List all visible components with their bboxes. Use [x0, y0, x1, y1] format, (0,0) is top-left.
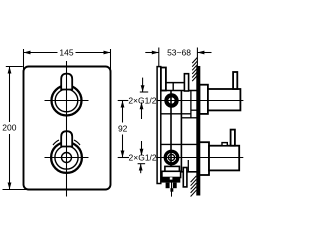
- dim 53-68 extension line left: [158, 48, 160, 67]
- dim 200 line upper segment: [9, 67, 11, 123]
- upper port ring: [164, 93, 178, 107]
- upper centerline: [156, 100, 243, 102]
- top knob stem: [61, 74, 72, 90]
- top knob horizontal centerline: [45, 100, 89, 102]
- dim 145 line left segment: [24, 52, 58, 54]
- lower port inner circle: [168, 154, 174, 160]
- lower tick arrow shaft: [140, 164, 142, 174]
- dim 145 extension line right: [110, 49, 112, 73]
- upper tick arrow shaft: [142, 78, 144, 92]
- second dim arrow down head: [140, 149, 144, 156]
- rear stub: [183, 168, 187, 187]
- svg-text:145: 145: [59, 48, 73, 58]
- second dim arrow up shaft: [141, 103, 143, 120]
- dim 200 extension line bottom: [3, 189, 27, 191]
- dim 200 extension line top: [6, 66, 23, 68]
- dim 145 arrow left: [24, 51, 31, 55]
- upper tick mark: [140, 91, 148, 93]
- bottom fitting nut right: [173, 183, 177, 189]
- dim 92 arrow down: [121, 151, 125, 158]
- lower tick mark: [138, 163, 146, 165]
- lower centerline: [156, 157, 243, 159]
- bottom knob rotation arc left: [53, 140, 59, 145]
- side body vertical line 4: [187, 160, 189, 172]
- upper pipe: [208, 89, 241, 110]
- dim 92 lower leader line: [118, 157, 129, 159]
- lower flange: [199, 142, 209, 175]
- dim 200 arrow bottom: [8, 183, 12, 190]
- lower bump: [222, 143, 227, 146]
- front plate: [24, 67, 111, 190]
- bottom fitting tip: [170, 188, 173, 192]
- side body horizontal line 1: [161, 113, 191, 115]
- bottom fitting nut left: [166, 183, 170, 189]
- side body horizontal line 4: [161, 143, 197, 145]
- dim 92 line upper segment: [122, 101, 124, 123]
- bottom fitting slab 1: [165, 166, 180, 171]
- stem 2: [184, 74, 188, 91]
- side body horizontal line 2: [181, 117, 196, 119]
- side body vertical line 2: [180, 91, 182, 172]
- side trim plate: [157, 67, 161, 184]
- upper label leader to port: [157, 100, 165, 102]
- dim 145 extension line left: [23, 49, 25, 73]
- dim 92 arrow up: [121, 101, 125, 108]
- svg-text:53~68: 53~68: [167, 47, 191, 57]
- wall hatching upper: [192, 58, 197, 64]
- second dim arrow up head: [140, 102, 144, 109]
- dim 200 line lower segment: [9, 134, 11, 190]
- upper section short vertical: [172, 83, 174, 91]
- dim 53-68 right arrow head: [197, 51, 204, 55]
- top knob inner ring: [55, 89, 78, 112]
- dim 53-68 left arrow shaft: [145, 52, 159, 54]
- bottom fitting slab 3: [162, 178, 181, 183]
- bottom fitting centerline: [171, 182, 173, 197]
- side body vertical line 3: [190, 91, 192, 119]
- dim 145 arrow right: [104, 51, 111, 55]
- lower tick arrow head: [139, 164, 143, 171]
- svg-text:2×G1/2: 2×G1/2: [129, 152, 157, 162]
- bottom knob horizontal centerline: [45, 157, 89, 159]
- svg-text:200: 200: [2, 123, 16, 133]
- upper stub: [233, 72, 237, 89]
- upper flange: [200, 85, 208, 114]
- svg-text:92: 92: [118, 123, 128, 133]
- dim 53-68 right arrow shaft: [197, 52, 211, 54]
- dim 53-68 left arrow head: [152, 51, 159, 55]
- dim 145 line right segment: [76, 52, 111, 54]
- bottom fitting slab 3 notch: [170, 177, 173, 179]
- side body bottom edge: [161, 171, 197, 173]
- wall section bar: [196, 66, 200, 196]
- front vertical centerline: [66, 61, 68, 197]
- upper tick arrow head: [141, 85, 145, 92]
- bottom knob stem: [61, 131, 72, 146]
- wall hatching lower: [191, 176, 197, 182]
- dim 200 arrow top: [8, 67, 12, 74]
- bottom fitting slab 2: [162, 171, 181, 177]
- lower pipe: [209, 146, 239, 171]
- dim 92 line lower segment: [122, 135, 124, 158]
- stem 1: [161, 68, 166, 91]
- upper section top edge: [166, 82, 185, 84]
- side body vertical line 1: [170, 91, 172, 172]
- second dim arrow down shaft: [141, 141, 143, 155]
- dim 92 upper leader line: [118, 100, 129, 102]
- side body horizontal line 3: [191, 109, 200, 111]
- side body top edge: [161, 90, 197, 92]
- top knob outer ring: [52, 86, 82, 116]
- lower port outer ring: [164, 150, 180, 166]
- bottom knob inner ring: [55, 146, 78, 169]
- bottom knob center circle: [62, 153, 72, 163]
- dim 53-68 extension line right: [196, 48, 198, 68]
- svg-text:2×G1/2: 2×G1/2: [128, 95, 156, 105]
- lower label leader to port: [156, 157, 164, 159]
- bottom knob outer ring: [51, 142, 82, 173]
- lower stub: [231, 130, 235, 146]
- bottom knob rotation arc right: [74, 140, 80, 145]
